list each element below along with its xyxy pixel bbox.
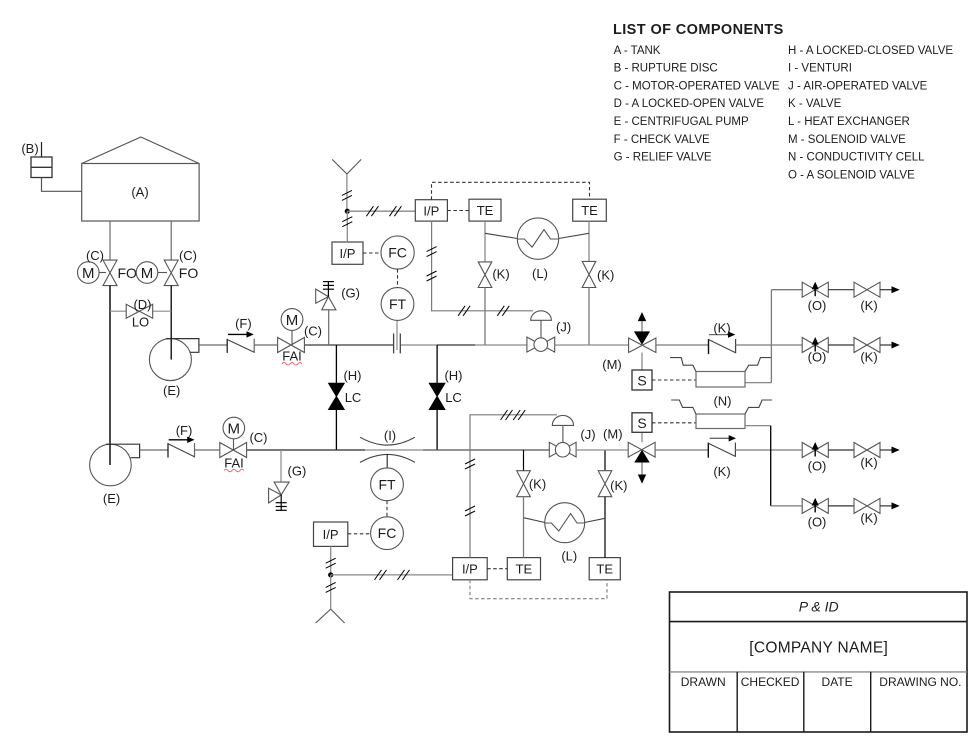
pump E top centrifugal — [149, 339, 199, 398]
svg-text:(K): (K) — [610, 478, 627, 493]
svg-text:FT: FT — [389, 296, 407, 312]
svg-text:(G): (G) — [288, 464, 307, 479]
svg-text:FC: FC — [378, 525, 397, 541]
node junction dot top — [345, 209, 350, 214]
svg-text:(K): (K) — [860, 511, 877, 526]
svg-text:(O): (O) — [808, 298, 827, 313]
valve K row3 — [854, 443, 880, 471]
svg-text:N - CONDUCTIVITY CELL: N - CONDUCTIVITY CELL — [788, 152, 925, 164]
venturi I on bottom main line — [360, 428, 415, 463]
wire signal I/P up and over to J valve actuator bottom — [470, 415, 557, 558]
wire main line to K valve right bottom — [604, 450, 606, 471]
valve D locked-open — [126, 297, 153, 330]
svg-text:FAI: FAI — [282, 349, 302, 364]
signal marks on junction wire bottom — [375, 570, 410, 580]
svg-text:O - A SOLENOID VALVE: O - A SOLENOID VALVE — [788, 169, 915, 181]
svg-text:A - TANK: A - TANK — [614, 45, 661, 57]
svg-text:G - RELIEF VALVE: G - RELIEF VALVE — [614, 152, 712, 164]
svg-text:D - A LOCKED-OPEN VALVE: D - A LOCKED-OPEN VALVE — [614, 98, 765, 110]
svg-text:(O): (O) — [808, 459, 827, 474]
wire main line to K valve left bottom — [523, 450, 525, 471]
signal marks on junction wire top — [366, 206, 401, 216]
wire top main line FAI to J valve — [305, 344, 527, 346]
conductivity cell N bottom — [671, 393, 772, 428]
wire top main line M valve to angle valve — [656, 344, 709, 346]
instrument TE1 top box — [469, 199, 501, 221]
wire dashed FC to FT — [397, 269, 399, 288]
wire distribution vertical top — [770, 290, 772, 383]
wire TE2 down to main line — [588, 221, 590, 261]
valve K right bottom — [598, 471, 627, 497]
svg-text:M: M — [141, 265, 154, 282]
svg-text:LC: LC — [445, 390, 462, 405]
svg-text:FO: FO — [118, 265, 138, 281]
wire bottom main line FAI to J valve — [247, 449, 549, 451]
valve M solenoid 3-way top — [602, 312, 656, 372]
svg-text:(C): (C) — [249, 430, 267, 445]
tank A — [82, 137, 199, 221]
instrument TE2 top box — [573, 199, 607, 221]
relief valve G top — [316, 282, 360, 345]
svg-text:TE: TE — [477, 203, 494, 218]
relief valve G bottom — [269, 450, 307, 511]
valve O row4 solenoid — [802, 498, 828, 530]
svg-text:(E): (E) — [163, 383, 180, 398]
rupture disc B — [21, 141, 52, 178]
svg-text:(F): (F) — [235, 316, 252, 331]
valve C1 motor-operated — [78, 248, 138, 286]
instrument FC bottom — [371, 517, 404, 550]
svg-text:(M): (M) — [602, 357, 622, 372]
valve K angle bottom with arrow — [708, 435, 736, 479]
signal marks below junction bottom — [326, 582, 336, 592]
svg-text:(O): (O) — [808, 515, 827, 530]
svg-text:I/P: I/P — [323, 527, 339, 542]
svg-text:J - AIR-OPERATED VALVE: J - AIR-OPERATED VALVE — [788, 80, 928, 92]
signal marks below junction top — [342, 217, 352, 227]
svg-text:(K): (K) — [713, 464, 730, 479]
signal marks above junction bottom — [326, 558, 336, 568]
vent symbol top — [332, 159, 361, 211]
valve K row4 — [854, 498, 880, 525]
svg-text:(C): (C) — [179, 248, 197, 263]
svg-text:[COMPANY NAME]: [COMPANY NAME] — [749, 640, 888, 657]
wire row4 outlet arrow — [880, 502, 900, 509]
wire dashed I/P to FC — [363, 252, 381, 254]
wire dashed I/P to TE1 top — [447, 210, 469, 212]
wire dashed I/P to FC bottom — [348, 533, 371, 535]
heat exchanger L top — [485, 218, 589, 281]
wire row4 feed — [771, 505, 803, 507]
wire K to top main line at 485 — [484, 288, 486, 346]
svg-text:(K): (K) — [713, 321, 730, 336]
wire dashed I/P up over to TE2 top — [432, 182, 590, 199]
wire dashed I/P under to TE2 bottom — [470, 580, 607, 599]
wire row3 outlet arrow — [880, 447, 900, 454]
wire dashed S to conductivity cell top — [652, 379, 696, 381]
svg-text:(K): (K) — [860, 455, 877, 470]
wire TE1 down to main line — [484, 221, 486, 262]
wire top main line pump to check valve — [199, 344, 227, 346]
wire left column down to bottom pump — [109, 286, 111, 465]
valve M solenoid 3-way bottom — [603, 427, 655, 484]
valve C2 motor-operated — [136, 248, 198, 286]
wire dashed FT to FC bottom — [386, 501, 388, 517]
svg-text:LC: LC — [345, 390, 362, 405]
svg-text:(J): (J) — [580, 427, 595, 442]
svg-text:(G): (G) — [341, 286, 360, 301]
wire right column down to top pump — [170, 286, 172, 360]
wire row3 O to K — [828, 449, 854, 451]
wire distribution vertical bottom — [770, 426, 772, 506]
svg-text:(L): (L) — [561, 548, 577, 563]
svg-text:S: S — [637, 415, 646, 431]
wire check valve to FAI valve bottom — [195, 449, 220, 451]
valve K angle top with arrow — [709, 321, 736, 355]
wire junction to I/P top-mid — [347, 210, 415, 212]
solenoid S box bottom — [632, 413, 652, 433]
wire bottom main line pump to check valve — [140, 449, 168, 451]
solenoid S box top — [632, 370, 652, 390]
svg-text:FO: FO — [179, 265, 199, 281]
svg-text:(F): (F) — [176, 423, 193, 438]
svg-text:B - RUPTURE DISC: B - RUPTURE DISC — [614, 63, 718, 75]
svg-text:M - SOLENOID VALVE: M - SOLENOID VALVE — [788, 134, 906, 146]
svg-text:M: M — [82, 265, 95, 282]
check valve F top — [227, 316, 254, 353]
svg-text:(D): (D) — [133, 297, 151, 312]
svg-text:FC: FC — [388, 245, 407, 261]
valve C3 motor-operated FAI — [278, 309, 322, 365]
svg-text:(H): (H) — [343, 368, 361, 383]
wire dashed I/P to TE1 bottom — [487, 568, 507, 570]
instrument FT bottom — [371, 468, 404, 501]
valve K below TE1 — [478, 262, 509, 288]
orifice plate on top main line — [394, 321, 401, 354]
svg-text:I/P: I/P — [423, 204, 439, 219]
svg-text:H - A LOCKED-CLOSED VALVE: H - A LOCKED-CLOSED VALVE — [788, 45, 953, 57]
pump E bottom centrifugal — [90, 444, 140, 506]
vent symbol bottom — [316, 575, 345, 623]
signal marks on I/P drop wire top — [427, 247, 437, 281]
list of components column 1 — [614, 45, 780, 164]
svg-text:I/P: I/P — [462, 562, 478, 577]
svg-text:DATE: DATE — [822, 675, 853, 689]
svg-text:(N): (N) — [713, 393, 731, 408]
wire check valve to FAI valve — [254, 344, 277, 346]
wire signal I/P down and over to J valve actuator top — [432, 221, 533, 311]
valve J air-operated bottom — [549, 415, 595, 457]
svg-text:(M): (M) — [603, 427, 623, 442]
svg-text:FAI: FAI — [224, 455, 244, 470]
valve K row1 — [854, 282, 880, 313]
svg-text:DRAWN: DRAWN — [681, 675, 726, 689]
svg-text:TE: TE — [596, 562, 613, 577]
instrument TE1 bottom box — [507, 558, 540, 580]
svg-text:(K): (K) — [597, 268, 614, 283]
wire row4 O to K — [828, 505, 854, 507]
wire rupture disc to tank — [42, 178, 82, 192]
svg-text:CHECKED: CHECKED — [741, 675, 800, 689]
svg-text:M: M — [286, 312, 299, 329]
wire dashed S to conductivity cell N — [652, 422, 696, 424]
valve H1 locked-closed with wires — [329, 345, 362, 450]
svg-text:LIST OF COMPONENTS: LIST OF COMPONENTS — [613, 22, 784, 38]
svg-text:(B): (B) — [21, 141, 38, 156]
instrument I/P top-mid box — [415, 200, 447, 221]
list of components column 2 — [788, 45, 953, 182]
svg-text:(I): (I) — [384, 428, 396, 443]
svg-text:(H): (H) — [444, 368, 462, 383]
svg-text:(O): (O) — [808, 350, 827, 365]
valve O row3 solenoid — [802, 442, 828, 474]
conductivity cell top — [670, 358, 771, 387]
svg-text:FT: FT — [378, 476, 396, 492]
wire junction to I/P bottom-mid — [331, 574, 453, 576]
svg-text:(C): (C) — [304, 324, 322, 339]
instrument FT top — [381, 288, 414, 321]
svg-text:E - CENTRIFUGAL PUMP: E - CENTRIFUGAL PUMP — [614, 116, 749, 128]
valve O row2 solenoid — [802, 337, 828, 365]
wire junction to I/P top-left — [346, 211, 348, 242]
wire bottom main line M valve to angle valve — [655, 449, 708, 451]
wire row1 O to K — [828, 289, 854, 291]
wire D bypass line — [110, 310, 171, 312]
svg-text:M: M — [228, 421, 241, 438]
wire row1 outlet arrow — [880, 286, 900, 293]
wire K valve to TE1 bottom — [523, 497, 525, 558]
svg-text:(A): (A) — [131, 185, 148, 200]
svg-text:F - CHECK VALVE: F - CHECK VALVE — [614, 134, 710, 146]
svg-text:L - HEAT EXCHANGER: L - HEAT EXCHANGER — [788, 116, 910, 128]
signal marks on J actuator wire top — [458, 306, 509, 316]
wire row1 feed — [771, 289, 802, 291]
instrument TE2 bottom box — [589, 558, 620, 580]
signal marks on vent stem top — [342, 190, 352, 200]
svg-text:(K): (K) — [492, 267, 509, 282]
wire K valve to TE2 bottom — [604, 497, 606, 558]
svg-text:I - VENTURI: I - VENTURI — [788, 63, 852, 75]
svg-text:DRAWING NO.: DRAWING NO. — [879, 675, 961, 689]
instrument I/P bottom-left box — [314, 522, 348, 546]
valve O row1 solenoid — [802, 282, 828, 313]
svg-text:TE: TE — [581, 203, 598, 218]
heat exchanger L bottom — [524, 503, 606, 564]
valve K left bottom — [517, 471, 546, 497]
signal marks on J actuator wire bottom — [501, 410, 526, 420]
svg-text:(J): (J) — [556, 320, 571, 335]
wire top main line J to M valve — [555, 344, 629, 346]
valve K below TE2 — [582, 261, 614, 287]
svg-text:(K): (K) — [860, 350, 877, 365]
node junction dot bottom — [328, 572, 333, 577]
instrument FC top — [381, 236, 414, 269]
valve J air-operated top — [527, 311, 571, 352]
wire bottom main line angle valve to O row3 — [735, 449, 802, 451]
wire venturi tap to FT bottom — [386, 454, 388, 468]
wire tank outlet left — [109, 221, 111, 260]
signal marks on I/P riser bottom — [465, 459, 475, 516]
svg-text:(K): (K) — [860, 298, 877, 313]
svg-text:(L): (L) — [532, 266, 548, 281]
valve H2 locked-closed with wires — [429, 345, 462, 450]
wire top main line angle valve to O row2 — [736, 344, 803, 346]
wire bottom main line J to M valve — [576, 449, 628, 451]
valve K row2 — [854, 338, 880, 365]
instrument I/P top-left box — [332, 242, 363, 264]
svg-text:(E): (E) — [103, 491, 120, 506]
wire K to top main line at 589 — [588, 288, 590, 346]
svg-text:(C): (C) — [86, 248, 104, 263]
svg-text:LO: LO — [132, 315, 149, 330]
svg-text:TE: TE — [516, 562, 533, 577]
valve C4 motor-operated FAI bottom — [220, 417, 268, 472]
svg-text:K - VALVE: K - VALVE — [788, 98, 842, 110]
wire tank outlet right — [170, 221, 172, 260]
svg-text:C - MOTOR-OPERATED VALVE: C - MOTOR-OPERATED VALVE — [614, 80, 780, 92]
check valve F bottom — [168, 423, 195, 458]
instrument I/P bottom-mid box — [453, 558, 488, 580]
svg-text:P & ID: P & ID — [799, 599, 839, 615]
wire row2 outlet arrow — [880, 342, 900, 349]
svg-text:I/P: I/P — [340, 246, 356, 261]
title block — [670, 592, 968, 732]
wire row2 O to K — [828, 344, 854, 346]
wire I/P down to junction bottom — [330, 546, 332, 575]
svg-text:S: S — [637, 373, 646, 389]
svg-text:(K): (K) — [529, 477, 546, 492]
